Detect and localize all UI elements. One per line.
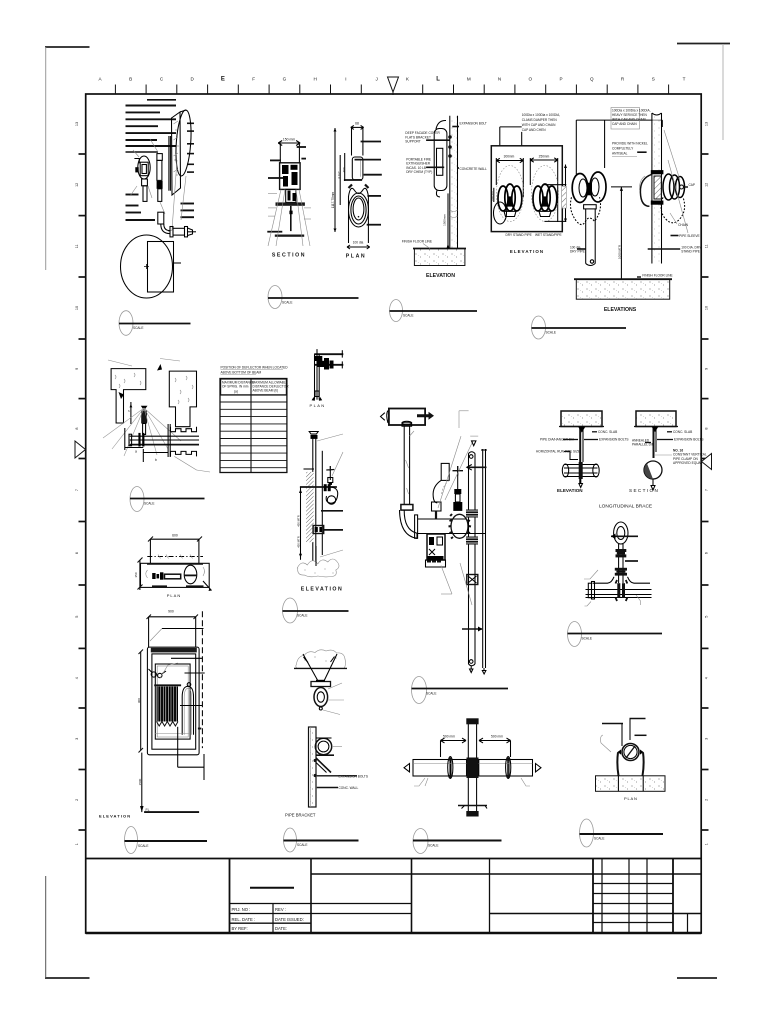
svg-text:1500mm: 1500mm [443, 214, 447, 226]
detail: ELEVATION - recessed hose cabinet front [99, 610, 205, 819]
svg-text:SCALE: SCALE [582, 637, 592, 641]
svg-text:HEAVY SERVICE THEN: HEAVY SERVICE THEN [612, 113, 648, 117]
svg-text:SECTION: SECTION [629, 488, 659, 493]
svg-text:B: B [129, 77, 132, 82]
table: position of deflector when located above bottom of beam [220, 366, 289, 473]
svg-text:ELEVATION: ELEVATION [557, 488, 583, 493]
svg-text:SCALE: SCALE [297, 614, 307, 618]
svg-text:7: 7 [75, 489, 79, 491]
scale bubble 6 (below plan) [283, 598, 349, 623]
detail: PLAN - sprinkler plan view with dims [331, 122, 382, 260]
detail: PLAN - riser clamp on beam [596, 719, 666, 802]
svg-text:1117.75mm: 1117.75mm [331, 191, 335, 208]
svg-text:ELEVATIONS: ELEVATIONS [604, 307, 637, 313]
svg-text:DRY PIPE: DRY PIPE [570, 250, 585, 254]
svg-text:F: F [252, 77, 255, 82]
detail: riser tee with flanges [584, 522, 652, 606]
svg-text:2: 2 [705, 799, 709, 801]
svg-text:CONC. SLAB: CONC. SLAB [598, 430, 617, 434]
svg-text:900: 900 [137, 698, 141, 703]
svg-text:10: 10 [705, 306, 709, 310]
svg-text:SUPPORT: SUPPORT [405, 140, 420, 144]
svg-text:OF SPRIG. IN mm: OF SPRIG. IN mm [222, 385, 249, 389]
svg-text:COMPLETELY: COMPLETELY [612, 147, 634, 151]
top center triangle marker [388, 77, 399, 95]
detail: ELEVATION - alarm valve assembly with ceiling drop [381, 409, 488, 675]
scale bubble 4 (below elevations) [532, 316, 627, 339]
scale bubble 11 (below crossing pipes) [413, 829, 502, 854]
svg-text:WET STAND/PIPE: WET STAND/PIPE [535, 233, 562, 237]
svg-text:a: a [135, 450, 137, 454]
svg-text:5: 5 [705, 616, 709, 618]
svg-text:350: 350 [134, 572, 138, 577]
left mid arrow marker [75, 441, 86, 458]
detail: ELEVATIONS - siamese inlet and capped standpipe [570, 108, 702, 313]
svg-text:4 1/2": 4 1/2" [337, 171, 341, 179]
svg-text:CLAMS DAMPER THEN: CLAMS DAMPER THEN [522, 118, 558, 122]
svg-text:SCALE: SCALE [297, 843, 307, 847]
right mid arrow marker [702, 454, 712, 470]
detail: ELEVATION - riser at wall with valve [297, 432, 344, 593]
svg-text:100 dia: 100 dia [353, 241, 364, 245]
detail: wall section hatch lines (top-left) [126, 100, 195, 220]
svg-text:SCALE: SCALE [426, 692, 436, 696]
svg-text:POSITION OF DEFLECTOR WHEN LOC: POSITION OF DEFLECTOR WHEN LOCATED [221, 366, 289, 370]
svg-text:WITH CAP AND CHAIN: WITH CAP AND CHAIN [522, 123, 556, 127]
detail: 90-deg elbow with flanges (below cluster) [158, 212, 196, 237]
svg-text:PLAN: PLAN [167, 593, 181, 598]
svg-text:4: 4 [75, 677, 79, 679]
scale bubble 7 (below center assembly) [412, 677, 509, 704]
svg-text:REL. DATE :: REL. DATE : [232, 917, 256, 922]
detail: PLAN - pipe drop at beam (small, top right of table) [310, 349, 344, 408]
row ticks and numbers left/right [75, 122, 709, 845]
svg-text:S: S [652, 77, 655, 82]
title block [86, 859, 702, 934]
svg-text:DATE ISSUED:: DATE ISSUED: [275, 917, 304, 922]
svg-text:PIPE SLEEVE: PIPE SLEEVE [679, 234, 700, 238]
svg-text:ELEVATION: ELEVATION [426, 273, 455, 279]
svg-text:900: 900 [168, 610, 174, 614]
svg-text:PIPE BRACKET: PIPE BRACKET [285, 813, 316, 818]
corner crop mark top-right [677, 44, 730, 141]
svg-text:100Dia x 100Dia x 100DIA,: 100Dia x 100Dia x 100DIA, [612, 109, 651, 113]
svg-text:ABOVE BOTTOM OF BEAM: ABOVE BOTTOM OF BEAM [221, 371, 262, 375]
svg-text:CHAIN: CHAIN [678, 223, 689, 227]
detail: recessed sprinkler assembly (center of cluster) [150, 136, 170, 214]
column letter row A-T with ticks [98, 77, 685, 95]
svg-text:6: 6 [705, 552, 709, 554]
svg-text:8: 8 [75, 428, 79, 430]
svg-text:LONGITUDINAL BRACE: LONGITUDINAL BRACE [599, 504, 652, 510]
svg-text:1: 1 [75, 843, 79, 845]
detail: PLAN - valve assembly in pit [134, 534, 212, 598]
svg-text:500 mm: 500 mm [491, 734, 503, 738]
svg-text:SCALE: SCALE [428, 844, 438, 848]
svg-text:CAP AND CHEN: CAP AND CHEN [522, 128, 547, 132]
svg-text:HORIZONTAL RUN PIPE SIZE: HORIZONTAL RUN PIPE SIZE [536, 450, 580, 454]
svg-text:APPROVED EQUAL: APPROVED EQUAL [673, 461, 703, 465]
svg-text:12: 12 [705, 183, 709, 187]
svg-text:450 MTR: 450 MTR [297, 536, 301, 548]
detail: concealed head cylinder plan (large circle + rect) [121, 235, 182, 298]
svg-text:SCALE: SCALE [282, 301, 292, 305]
detail: PIPE BRACKET on concrete wall [285, 727, 368, 818]
detail: oblique escutcheon plate ellipse with slanted panel [168, 110, 193, 232]
detail: ELEVATION - fire hose cabinet with dry/wet stand pipe bells [490, 113, 567, 254]
svg-text:b: b [155, 458, 157, 462]
svg-text:EXPANSION BOLTS: EXPANSION BOLTS [339, 775, 368, 779]
svg-text:CONCRETE WALL: CONCRETE WALL [460, 167, 488, 171]
scale bubble 12 (bottom right) [580, 819, 664, 847]
svg-text:CONC. WALL: CONC. WALL [339, 786, 359, 790]
scale bubble 3 (right of section detail) [390, 300, 478, 322]
svg-text:E: E [221, 77, 225, 83]
svg-text:1: 1 [705, 843, 709, 845]
svg-text:ELEVATION: ELEVATION [99, 814, 131, 819]
svg-text:EXPANSION BOLT: EXPANSION BOLT [460, 121, 487, 125]
svg-text:6: 6 [75, 552, 79, 554]
detail: beam/sprinkler clearance diagram [103, 359, 210, 473]
svg-text:SCALE: SCALE [138, 844, 148, 848]
svg-text:600: 600 [172, 534, 178, 538]
svg-text:EXPANSION BOLTS: EXPANSION BOLTS [599, 438, 628, 442]
svg-text:PARALLEL DIM: PARALLEL DIM [632, 443, 655, 447]
detail: pendent sprinkler head with escutcheon (top-left) [130, 150, 152, 201]
svg-text:PRJ. NO :: PRJ. NO : [232, 907, 251, 912]
corner crop mark bottom-right [677, 977, 717, 979]
svg-text:EXPANSION BOLTS: EXPANSION BOLTS [674, 438, 703, 442]
scale bubble 10 (below pipe bracket) [284, 828, 359, 852]
svg-text:M: M [467, 77, 471, 82]
svg-text:500 mm: 500 mm [443, 734, 455, 738]
detail: SECTION - recessed sprinkler in ceiling [267, 138, 311, 259]
svg-text:8: 8 [705, 428, 709, 430]
corner crop mark bottom-left [45, 876, 90, 978]
detail: PLAN - pipes crossing with couplings [404, 718, 541, 816]
svg-text:100Dia x 100Dia x 100DIA,: 100Dia x 100Dia x 100DIA, [522, 113, 561, 117]
svg-text:9: 9 [75, 368, 79, 370]
svg-text:(a): (a) [234, 390, 238, 394]
corner crop mark top-left [45, 47, 90, 270]
svg-text:2: 2 [75, 799, 79, 801]
svg-text:CONC. SLAB: CONC. SLAB [673, 430, 692, 434]
svg-text:9: 9 [705, 368, 709, 370]
svg-text:11: 11 [75, 244, 79, 248]
svg-text:68: 68 [355, 122, 359, 126]
svg-text:Q: Q [590, 77, 594, 82]
svg-text:O: O [529, 77, 533, 82]
svg-text:SCALE: SCALE [403, 314, 413, 318]
svg-text:SCALE: SCALE [546, 331, 556, 335]
svg-text:P: P [560, 77, 563, 82]
svg-text:7: 7 [705, 489, 709, 491]
svg-text:ANTISEAL: ANTISEAL [612, 152, 628, 156]
scale bubble 5 (below beam diagram) [130, 487, 205, 512]
scale bubble 9 (bottom left) [125, 827, 208, 854]
svg-text:11: 11 [705, 244, 709, 248]
detail: ceiling clip hanger on concrete slab [294, 650, 347, 715]
svg-text:3: 3 [705, 738, 709, 740]
svg-text:CAP AND CHAIN: CAP AND CHAIN [612, 122, 637, 126]
caption: LONGITUDINAL BRACE [599, 504, 652, 510]
svg-text:DRY CHEM (TYP): DRY CHEM (TYP) [406, 170, 432, 174]
svg-text:450 MTR: 450 MTR [297, 515, 301, 527]
detail: ELEVATION - longitudinal brace at slab [536, 411, 628, 493]
svg-text:DRY STAND PIPE: DRY STAND PIPE [506, 233, 532, 237]
svg-text:PLAN: PLAN [624, 796, 638, 801]
svg-text:H: H [314, 77, 317, 82]
svg-text:J: J [375, 77, 377, 82]
svg-text:N: N [498, 77, 501, 82]
scale bubble 2 (below section detail) [268, 286, 359, 309]
svg-text:G: G [283, 77, 287, 82]
svg-text:SECTION: SECTION [272, 253, 306, 259]
svg-text:4: 4 [705, 677, 709, 679]
detail: ELEVATION - portable fire extinguisher on concrete wall [402, 116, 487, 279]
svg-text:ELEVATION: ELEVATION [301, 587, 343, 593]
svg-text:13: 13 [75, 122, 79, 126]
svg-text:13: 13 [705, 122, 709, 126]
svg-text:STAND PIPE: STAND PIPE [681, 250, 700, 254]
svg-text:1000 MTR: 1000 MTR [617, 244, 621, 259]
svg-text:1500: 1500 [138, 778, 142, 785]
svg-text:PLAN: PLAN [310, 403, 326, 408]
svg-text:PLAN: PLAN [346, 254, 367, 260]
svg-text:150 mm: 150 mm [283, 138, 295, 142]
svg-text:250mm: 250mm [539, 155, 550, 159]
svg-text:SCALE: SCALE [133, 326, 143, 330]
svg-text:BY REF:: BY REF: [232, 926, 248, 931]
svg-text:FINISH FLOOR LINE: FINISH FLOOR LINE [642, 273, 672, 277]
svg-text:WITH CAP AND CHAIN: WITH CAP AND CHAIN [612, 118, 646, 122]
svg-text:5: 5 [75, 616, 79, 618]
svg-text:SCALE: SCALE [144, 502, 154, 506]
detail: SECTION - longitudinal brace [629, 411, 707, 493]
svg-text:300mm: 300mm [504, 155, 515, 159]
svg-text:FINISH FLOOR LINE: FINISH FLOOR LINE [402, 240, 432, 244]
svg-text:400: 400 [342, 167, 346, 172]
svg-text:T: T [683, 77, 686, 82]
svg-text:ABOVE BEAM (b): ABOVE BEAM (b) [253, 389, 279, 393]
svg-text:L: L [436, 77, 440, 83]
svg-text:3: 3 [75, 738, 79, 740]
svg-text:REV :: REV : [275, 907, 286, 912]
sheet border frame [86, 94, 702, 933]
svg-text:PROVIDE WITH NICKEL: PROVIDE WITH NICKEL [612, 142, 648, 146]
svg-text:12: 12 [75, 183, 79, 187]
svg-text:SCALE: SCALE [594, 837, 604, 841]
scale bubble 8 (below longitudinal brace) [568, 622, 663, 647]
svg-text:ELEVATION: ELEVATION [510, 249, 544, 254]
svg-text:CAP: CAP [689, 183, 696, 187]
svg-text:600mm: 600mm [490, 191, 494, 201]
svg-text:10: 10 [75, 306, 79, 310]
scale bubble 1 (below circle detail) [119, 311, 191, 336]
svg-text:I: I [345, 77, 346, 82]
svg-text:DATE:: DATE: [275, 926, 287, 931]
